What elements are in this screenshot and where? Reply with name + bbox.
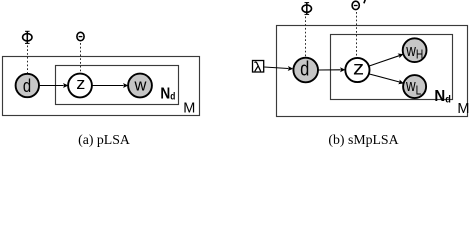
label N_d (pLSA): [160, 86, 175, 103]
label Theta (pLSA): [77, 32, 84, 40]
caption (b) sMpLSA: [328, 132, 398, 148]
node w_L: [403, 75, 426, 98]
dashed wire Theta prime to z (sMpLSA): [356, 12, 358, 59]
node d (sMpLSA): [293, 57, 318, 82]
box lambda: [253, 61, 264, 73]
label N_d (sMpLSA): [434, 88, 451, 106]
arrow d to z: [40, 83, 69, 88]
svg-text:d: d: [300, 57, 309, 80]
dashed wire Phi to d: [27, 46, 29, 75]
svg-text:w: w: [133, 77, 146, 95]
label M (pLSA): [183, 101, 195, 117]
arrow d to z (sMpLSA): [318, 67, 345, 72]
label Theta prime (sMpLSA): [352, 0, 365, 10]
arrow lambda to d: [264, 66, 293, 71]
plate N_d (sMpLSA inner plate): [331, 35, 453, 100]
svg-text:z: z: [76, 74, 85, 93]
arrow z to w_H: [369, 52, 404, 66]
plate N_d (pLSA inner plate): [56, 66, 179, 105]
svg-text:Nd: Nd: [434, 88, 451, 106]
node w (pLSA): [128, 74, 152, 98]
node w_H: [403, 38, 427, 62]
label Phi (sMpLSA): [302, 2, 311, 14]
svg-text:(b) sMpLSA: (b) sMpLSA: [328, 132, 398, 148]
caption (a) pLSA: [78, 132, 130, 148]
label M (sMpLSA): [457, 101, 469, 117]
node z (sMpLSA): [345, 58, 369, 82]
arrow z to w_L: [369, 74, 405, 86]
label Phi (pLSA): [23, 31, 32, 44]
dashed wire Phi to d (sMpLSA): [305, 17, 307, 59]
node d (pLSA): [16, 74, 39, 97]
node z (pLSA): [68, 74, 92, 98]
svg-text:(a) pLSA: (a) pLSA: [78, 132, 130, 148]
svg-text:d: d: [23, 75, 31, 96]
dashed wire Theta to z: [80, 43, 82, 74]
plate M (pLSA outer plate): [3, 57, 200, 116]
arrow z to w: [92, 83, 128, 88]
svg-text:z: z: [353, 58, 364, 79]
svg-text:M: M: [183, 101, 195, 117]
plate M (sMpLSA outer plate): [277, 26, 468, 117]
svg-text:M: M: [457, 101, 469, 117]
svg-text:Nd: Nd: [160, 86, 175, 103]
